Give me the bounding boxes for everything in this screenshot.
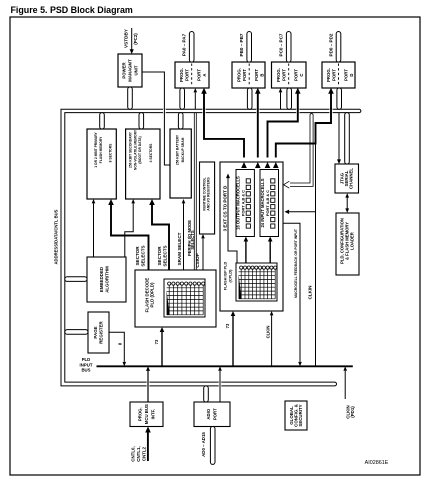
- svg-text:CNTL1,: CNTL1,: [136, 446, 141, 461]
- arrowhead port D thick: [328, 88, 334, 94]
- arrowhead port input: [285, 210, 290, 214]
- pipe port A to DPLD: [194, 113, 196, 270]
- arrowhead embedded to eeprom: [131, 199, 135, 203]
- block embedded algorithm: [87, 257, 126, 302]
- connector pill port D to bus: [337, 88, 342, 109]
- arrowhead into CPLD: [231, 311, 236, 316]
- open arrowhead into CPLD right side: [284, 181, 290, 188]
- wire embedded algorithm to eeprom: [125, 204, 133, 258]
- svg-text:PORT: PORT: [294, 69, 299, 81]
- svg-text:PROG.: PROG.: [179, 68, 184, 82]
- svg-text:CNTL2: CNTL2: [142, 446, 147, 461]
- white break for power wire at bus: [163, 109, 166, 114]
- wire port D thick arrow (above bus): [330, 93, 332, 109]
- wire CNTL input: [147, 432, 149, 462]
- svg-text:MANAGMT: MANAGMT: [128, 59, 133, 82]
- bus ADDRESS/DATA/CNTL BUS pipe (C-shaped channel): [61, 109, 361, 386]
- divider prog/port D: [338, 64, 340, 87]
- connector pill ADIO external: [210, 426, 215, 464]
- svg-text:(BOOT OR DATA): (BOOT OR DATA): [138, 136, 142, 163]
- divider prog/port C: [288, 64, 290, 87]
- connector pill port A external: [189, 31, 194, 62]
- svg-text:AD0 – AD15: AD0 – AD15: [201, 432, 206, 457]
- connector pill bus to page register: [65, 330, 88, 335]
- block power management unit: [118, 54, 142, 87]
- wire port C thick arrow (above bus): [297, 93, 299, 109]
- svg-text:ALGORITHM: ALGORITHM: [105, 266, 110, 293]
- divider prog/port B: [248, 64, 250, 87]
- pipe bus to input macrocells: [290, 114, 313, 187]
- arrowhead MCU interface: [146, 366, 150, 371]
- svg-text:C: C: [299, 73, 304, 76]
- svg-text:73: 73: [154, 339, 159, 344]
- svg-text:BUS: BUS: [81, 367, 90, 372]
- svg-text:PROG.: PROG.: [276, 68, 281, 82]
- svg-text:256 KBIT BATTERY: 256 KBIT BATTERY: [176, 134, 180, 165]
- connector pill bus to embedded algorithm: [65, 277, 87, 282]
- connector pill port A to bus: [180, 88, 185, 109]
- wire embedded algorithm to flash: [93, 204, 95, 258]
- arrowhead jtag-loader up: [345, 193, 349, 197]
- arrowhead sector selects eeprom: [149, 199, 155, 205]
- connector pill power unit to bus: [128, 87, 133, 109]
- wire port input into CPLD: [289, 211, 316, 213]
- connector pill port B to bus: [247, 88, 252, 109]
- arrowhead into CPLD from port A: [241, 162, 247, 168]
- svg-text:PORT A,B & C: PORT A,B & C: [265, 190, 270, 216]
- svg-text:PD0 – PD2: PD0 – PD2: [329, 33, 334, 56]
- svg-text:73: 73: [225, 323, 230, 328]
- block battery backup SRAM: [170, 129, 191, 198]
- bus PLD INPUT BUS line: [97, 365, 353, 367]
- connector pill ADIO to bus: [204, 386, 209, 402]
- wire port D to CPLD: [276, 108, 331, 158]
- svg-text:PORT: PORT: [213, 408, 218, 420]
- wire port A thick arrow (above bus): [203, 93, 205, 109]
- arrowhead port A thick: [201, 88, 207, 94]
- block CPLD (FLASH ISP PLD): [220, 162, 283, 311]
- block 24 input macrocells: [260, 170, 279, 237]
- wire port B thick arrow (above bus): [257, 93, 259, 109]
- svg-text:POWER: POWER: [122, 61, 127, 78]
- wire SRAM select: [183, 204, 185, 271]
- svg-text:SELECTS: SELECTS: [163, 245, 168, 266]
- arrowhead 3 EXT CS: [226, 174, 230, 179]
- block primary flash memory: [87, 129, 116, 199]
- block port D: [322, 62, 355, 88]
- arrowhead SRAM select: [182, 199, 186, 203]
- svg-text:FLASH MEMORY: FLASH MEMORY: [99, 136, 103, 163]
- white break for port B wire at bus: [256, 109, 259, 114]
- block 16 output macrocells: [236, 170, 254, 237]
- arrowhead CSIOP: [201, 234, 205, 238]
- AND array of CPLD: [236, 263, 277, 301]
- wire port A I/O pipe upper arrow: [194, 93, 196, 110]
- svg-text:PB0 – PB7: PB0 – PB7: [239, 33, 244, 56]
- wire CLKIN to PLD input bus: [315, 144, 317, 367]
- svg-text:EMBEDDED: EMBEDDED: [99, 267, 104, 292]
- arrowhead CNTL input: [145, 427, 151, 433]
- connector pill bus to eeprom: [139, 113, 144, 129]
- wire AND array to input macrocells: [269, 241, 271, 263]
- svg-text:SECTOR: SECTOR: [135, 246, 140, 266]
- connector pill port C external: [286, 31, 291, 62]
- block page register: [88, 312, 109, 353]
- wire JTAG to loader (bidirectional): [346, 195, 348, 212]
- block PLD configuration and flash memory loader: [336, 213, 359, 275]
- svg-text:8 SECTORS: 8 SECTORS: [109, 143, 113, 162]
- svg-text:INTF.: INTF.: [151, 409, 156, 419]
- svg-text:SECTOR: SECTOR: [157, 246, 162, 266]
- block PROG. MCU bus interface: [130, 402, 163, 427]
- connector pill port B external: [247, 31, 252, 62]
- arrowhead jtag-loader down: [345, 208, 349, 212]
- svg-text:LOADER: LOADER: [350, 232, 355, 250]
- connector pill bus to SRAM: [178, 113, 183, 129]
- wire PLD input bus to CPLD: [232, 316, 234, 367]
- svg-text:PORT A,B & C: PORT A,B & C: [241, 190, 246, 216]
- connector pill bus to JTAG: [345, 113, 350, 164]
- wire port C thin arrow: [280, 93, 282, 110]
- svg-text:PORT: PORT: [282, 69, 287, 81]
- wire CLKIN into CPLD: [271, 316, 273, 367]
- wire bus to JTAG: [338, 113, 340, 160]
- block port C: [272, 62, 307, 88]
- svg-text:PORT: PORT: [254, 69, 259, 81]
- svg-text:PORT: PORT: [185, 69, 190, 81]
- wire CLKIN (PD1) input: [344, 371, 346, 399]
- block FLASH DECODE PLD (DPLD): [135, 270, 216, 327]
- wire macrocell feedback: [283, 223, 300, 362]
- macrocell cells (output): [246, 179, 250, 228]
- svg-text:PROG.: PROG.: [237, 68, 242, 82]
- svg-text:CNTL0,: CNTL0,: [131, 446, 136, 461]
- arrowhead into CPLD from port C: [265, 162, 271, 168]
- arrowhead VSTDBY: [130, 49, 134, 54]
- svg-text:AI02861E: AI02861E: [365, 460, 389, 466]
- svg-text:A: A: [202, 73, 207, 76]
- svg-text:B: B: [260, 73, 265, 76]
- wire page register to PLD input bus: [109, 332, 124, 362]
- white break for port C wire at bus: [296, 109, 299, 114]
- block global configuration and security: [285, 401, 307, 430]
- arrowhead port C thick: [295, 88, 301, 94]
- AND array of DPLD: [164, 279, 205, 317]
- block runtime control and I/O registers: [200, 162, 215, 234]
- arrowhead port C thin: [279, 88, 283, 92]
- arrowhead bus to JTAG: [337, 159, 341, 164]
- svg-text:PORT: PORT: [197, 69, 202, 81]
- arrowhead port A I/O: [194, 88, 198, 92]
- white break for port D wire at bus: [329, 109, 332, 114]
- arrowhead to output macrocells: [244, 237, 249, 242]
- svg-text:PORT: PORT: [242, 69, 247, 81]
- wire MCU interface to PLD input bus: [147, 371, 149, 402]
- connector pill bus to flash memory: [100, 113, 105, 129]
- arrowhead ADIO to PLD input bus: [218, 366, 222, 370]
- svg-text:FLASH ISP PLD: FLASH ISP PLD: [224, 262, 228, 291]
- svg-text:ADIO: ADIO: [206, 408, 211, 419]
- wire CSIOP: [202, 239, 204, 271]
- svg-text:MACROCELL FEEDBACK OR PORT INP: MACROCELL FEEDBACK OR PORT INPUT: [294, 228, 298, 298]
- svg-text:D: D: [349, 73, 354, 76]
- wire ADIO to PLD input bus: [219, 371, 221, 402]
- svg-text:PAGE: PAGE: [93, 326, 98, 338]
- svg-text:PORT: PORT: [343, 69, 348, 81]
- arrowhead into CPLD from port B: [255, 162, 261, 168]
- svg-text:PORT: PORT: [331, 69, 336, 81]
- svg-text:CLKIN: CLKIN: [308, 285, 313, 300]
- wire sector selects to eeprom: [152, 204, 169, 270]
- arrowhead embedded to flash: [92, 199, 96, 203]
- svg-text:REGISTER: REGISTER: [99, 320, 104, 343]
- wire power unit to SRAM (battery backup): [142, 72, 170, 165]
- svg-text:AND I/O REGISTERS: AND I/O REGISTERS: [207, 177, 211, 211]
- block port B: [232, 62, 265, 88]
- white break for MCU intf wire at bottom bus pipe: [147, 382, 150, 387]
- svg-text:NON-VOLATILE MEMORY: NON-VOLATILE MEMORY: [133, 129, 137, 170]
- block ADIO port: [194, 402, 230, 427]
- white break for port A wire at bus: [202, 109, 205, 114]
- svg-text:PC0 – PC7: PC0 – PC7: [279, 33, 284, 56]
- arrowhead macrocell feedback: [298, 362, 302, 366]
- arrowhead into DPLD: [160, 327, 165, 332]
- wire sector selects to flash: [111, 204, 149, 270]
- svg-text:Figure 5. PSD Block Diagram: Figure 5. PSD Block Diagram: [11, 5, 133, 15]
- block JTAG serial channel: [335, 164, 359, 193]
- arrowhead into CPLD from port D: [273, 162, 279, 168]
- svg-text:(CPLD): (CPLD): [229, 269, 233, 283]
- svg-text:3 EXT CS TO PORT D: 3 EXT CS TO PORT D: [222, 185, 227, 231]
- svg-text:CLKIN: CLKIN: [266, 326, 271, 339]
- svg-text:(PD1): (PD1): [350, 406, 355, 418]
- arrowhead page register bus: [123, 362, 127, 366]
- arrowhead sector selects flash: [108, 199, 114, 205]
- divider prog/port A: [191, 64, 193, 87]
- arrowhead to input macrocells: [268, 237, 273, 242]
- svg-text:UNIT: UNIT: [133, 65, 138, 75]
- wire VSTDBY input: [131, 28, 133, 50]
- svg-text:PA0 – PA7: PA0 – PA7: [182, 33, 187, 56]
- svg-text:CSIOP: CSIOP: [195, 253, 200, 267]
- white break for ADIO wire at bottom bus pipe: [219, 382, 222, 387]
- svg-text:MCU BUS: MCU BUS: [144, 404, 149, 424]
- macrocell cells (input): [271, 179, 275, 228]
- arrowhead port B thick: [255, 88, 261, 94]
- connector pill port C to bus: [287, 88, 292, 109]
- wire port B to CPLD: [257, 108, 259, 158]
- wire AND array to output macrocells: [245, 241, 247, 263]
- wire port A to CPLD: [204, 108, 244, 158]
- svg-text:(PC2): (PC2): [133, 33, 138, 45]
- svg-text:PROG.: PROG.: [138, 407, 143, 421]
- svg-text:PROG.: PROG.: [326, 68, 331, 82]
- wire 3 EXT CS TO PORT D: [228, 177, 237, 263]
- svg-text:CHANNEL: CHANNEL: [349, 168, 354, 189]
- svg-text:1 OR 2 MBIT PRIMARY: 1 OR 2 MBIT PRIMARY: [94, 131, 98, 167]
- svg-text:4 SECTORS: 4 SECTORS: [149, 143, 153, 162]
- wire PLD input bus to DPLD: [161, 332, 163, 367]
- svg-text:PLD (DPLD): PLD (DPLD): [150, 282, 155, 307]
- svg-text:BACKUP SRAM: BACKUP SRAM: [181, 137, 185, 162]
- block port A: [175, 62, 209, 88]
- svg-text:ADDRESS/DATA/CNTL BUS: ADDRESS/DATA/CNTL BUS: [54, 209, 59, 264]
- svg-text:SRAM SELECT: SRAM SELECT: [177, 232, 182, 265]
- arrowhead CLKIN into CPLD: [270, 311, 274, 315]
- svg-text:256 KBIT SECONDARY: 256 KBIT SECONDARY: [129, 131, 133, 168]
- svg-text:SECURITY: SECURITY: [298, 404, 303, 426]
- svg-text:VSTDBY: VSTDBY: [124, 28, 129, 48]
- block secondary non-volatile memory: [126, 129, 160, 199]
- connector pill port D external: [336, 31, 341, 62]
- arrowhead CLKIN (PD1): [343, 366, 347, 370]
- svg-text:SELECTS: SELECTS: [141, 245, 146, 266]
- wire port C to CPLD: [268, 108, 298, 158]
- svg-text:SELECTS: SELECTS: [190, 230, 195, 250]
